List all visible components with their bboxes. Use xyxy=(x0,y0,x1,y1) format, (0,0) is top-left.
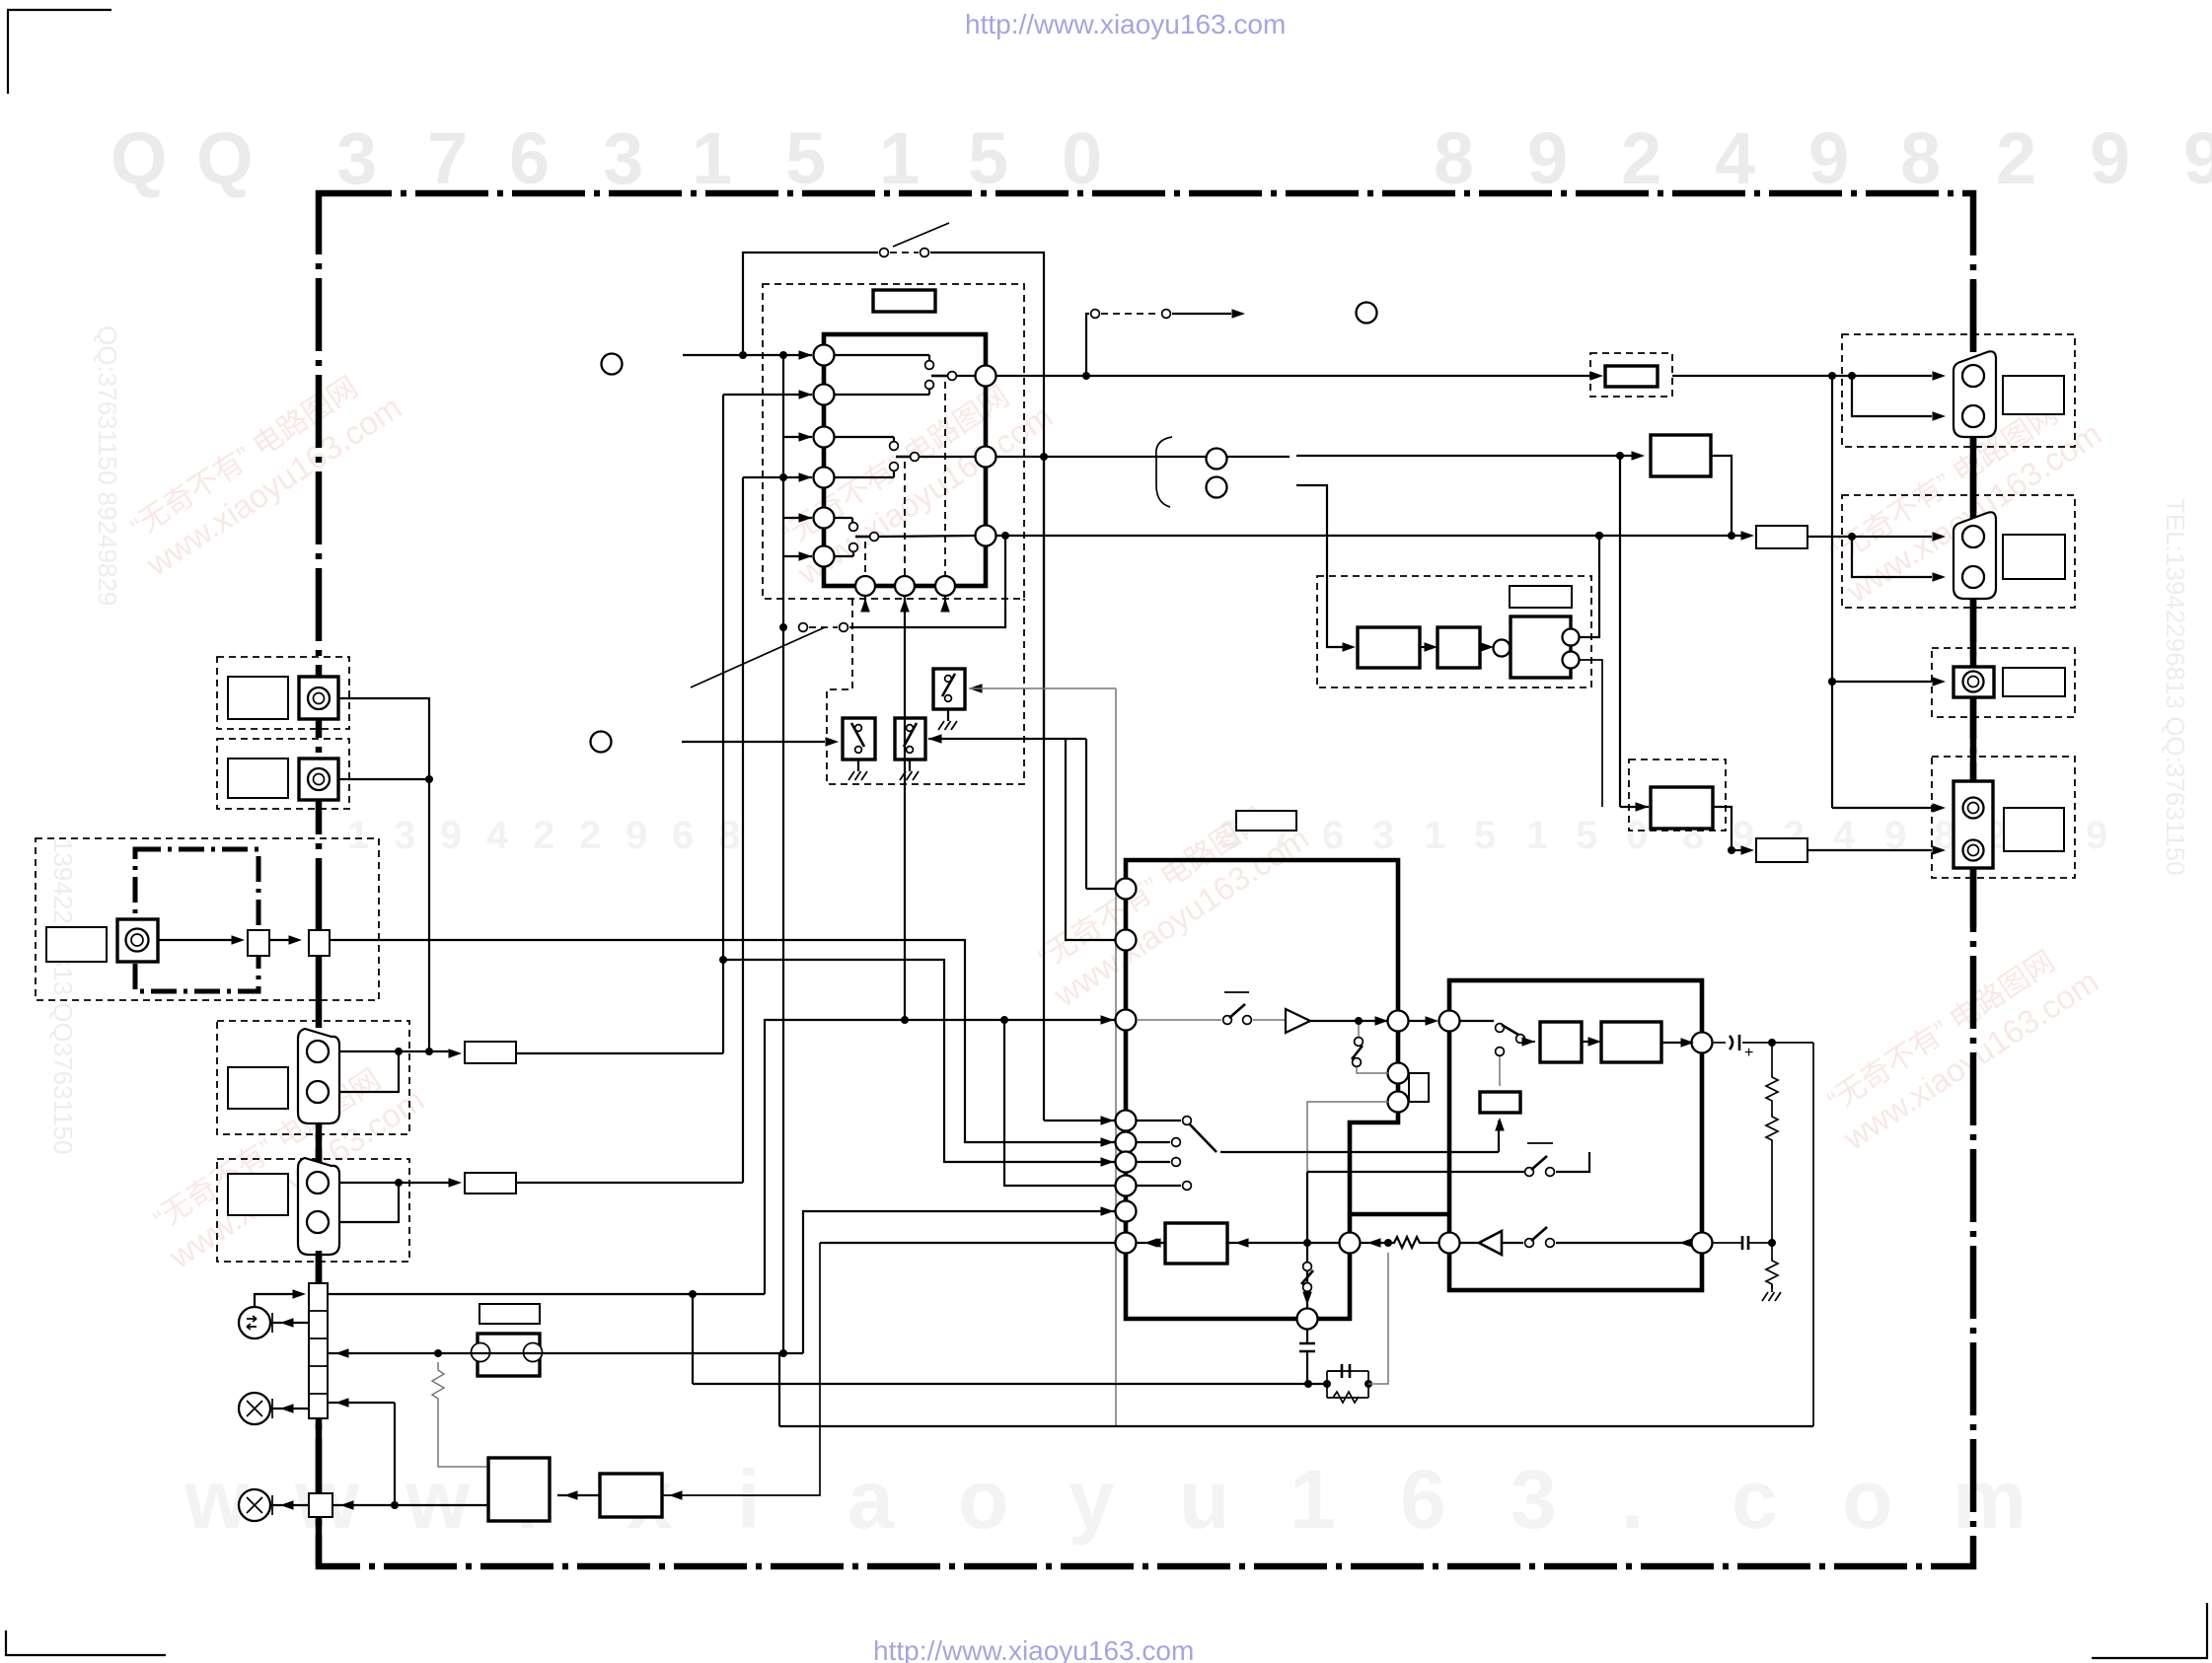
node junction xyxy=(1728,532,1735,540)
ground symbol SW-A xyxy=(848,771,867,780)
IC U1 dashed boundary xyxy=(763,284,1024,599)
dashed box D4 xyxy=(1629,759,1726,831)
label overline S4 xyxy=(1224,991,1249,993)
switch S8 contacts xyxy=(1496,1024,1505,1033)
arrowhead into B4 xyxy=(1632,451,1646,461)
U1 internal contact xyxy=(834,517,852,519)
switch S9 blade xyxy=(1531,1156,1547,1170)
SW-A ground stem xyxy=(857,759,859,771)
wire D3 B2-O xyxy=(1480,646,1487,648)
buffer amp A1 xyxy=(1286,1009,1310,1033)
SW-B ground stem xyxy=(909,759,911,771)
wire y1188 internal xyxy=(1307,1171,1526,1173)
IC U2 left pin 2 xyxy=(1116,930,1137,951)
label box U3-L1 xyxy=(1480,1092,1520,1113)
wire riser x753 xyxy=(742,477,744,1183)
wire riser x1642 xyxy=(1619,456,1621,807)
wire R8 to CN4 xyxy=(1807,849,1932,851)
switch S3 dashed gap xyxy=(1101,313,1160,315)
resistor R3 zigzag xyxy=(1388,1237,1426,1248)
wire node down chain xyxy=(1771,1043,1773,1073)
connector CN-B jack xyxy=(308,768,330,790)
arrowhead into CN4 pin2 xyxy=(1933,845,1947,855)
ground symbol chain xyxy=(1762,1292,1781,1301)
node junction y543 xyxy=(1595,532,1603,540)
IC U3 left pin 1 xyxy=(1439,1011,1460,1032)
connector CN1 pin2 xyxy=(1962,405,1984,427)
wire FL2 to riser x753 xyxy=(516,1182,743,1184)
IC U1 body xyxy=(824,334,986,586)
resistor R2 in RC xyxy=(1333,1392,1359,1403)
arrowhead into U1 pin xyxy=(799,472,813,482)
wire CN-D pin1 out seg xyxy=(339,1182,454,1184)
wire B3 input xyxy=(1227,1242,1339,1244)
IC U1 bottom pin 11 xyxy=(895,576,915,596)
strip divider xyxy=(309,1338,328,1339)
connector CN-B square xyxy=(299,759,338,800)
bus square xyxy=(309,930,330,956)
wire M2 to strip xyxy=(271,1408,309,1410)
wire stub y462 xyxy=(1296,455,1638,457)
arrowhead into U2 lower right pin xyxy=(1367,1238,1381,1248)
U1 internal contact xyxy=(834,394,929,396)
watermark pink diagonal left-top xyxy=(118,357,407,583)
wire U2a to U3 pin xyxy=(1408,1020,1428,1022)
connector CN4 label box xyxy=(2004,808,2064,851)
U1 internal dashed net xyxy=(864,542,866,576)
wire S8 to label box light xyxy=(1499,1056,1501,1086)
wire U2 bottom pin lead xyxy=(1306,1292,1308,1302)
loopback box U2bc xyxy=(1409,1073,1429,1102)
arrowhead into SW-B xyxy=(928,734,942,744)
wire stub y492 xyxy=(1296,485,1350,647)
wire C3 to node xyxy=(1742,1042,1813,1044)
U1 internal dashed net xyxy=(944,382,946,576)
wire RC top bridge xyxy=(1327,1370,1340,1372)
connector CN-C label box xyxy=(228,1067,288,1109)
wire riser x790 xyxy=(778,1353,780,1426)
switch S1 contact xyxy=(880,249,889,257)
IC U2 left pin 8 xyxy=(1116,1201,1137,1222)
block D3-B2 xyxy=(1438,627,1480,668)
SW-C contacts and blade xyxy=(945,676,952,683)
connector CN4 jack1 xyxy=(1963,798,1984,819)
node junction xyxy=(719,956,727,964)
D3 output circle top xyxy=(1563,629,1580,646)
arrowhead into CN4 pin1 xyxy=(1933,803,1947,813)
connector CN4 square xyxy=(1954,781,1993,868)
wire R1 to block B1 xyxy=(438,1407,488,1467)
arrowhead into filter FL2 xyxy=(449,1178,463,1188)
arrowhead into B2 xyxy=(669,1490,683,1500)
connector CN-C pin 2 xyxy=(307,1081,329,1103)
resistor R5 zigzag xyxy=(1766,1113,1778,1144)
resonator X1 body xyxy=(478,1334,540,1376)
arrowhead into U2 pin xyxy=(1101,1116,1115,1125)
arrowhead into U1 bottom pin 12 xyxy=(940,599,950,613)
wire U2 pin6 stub xyxy=(1137,1161,1170,1163)
switch S2 blade diagonal xyxy=(691,627,825,687)
arrowhead into U3 right pin2 xyxy=(1679,1238,1693,1248)
wire U2 pin5 stub xyxy=(1137,1141,1170,1143)
wire U1 input bus vertical xyxy=(782,355,784,627)
connector CN1 dashed box xyxy=(1842,334,2075,447)
wire pin c loop xyxy=(1408,1101,1409,1103)
connector CN-C pin 1 xyxy=(307,1041,329,1062)
arrowhead into strip 3 xyxy=(335,1348,349,1358)
switch S1 dashed gap xyxy=(890,252,919,253)
arrowhead into B5 xyxy=(1636,802,1650,812)
wire C1 down xyxy=(1306,1351,1308,1384)
wire strip top right xyxy=(328,1293,765,1295)
svg-text:139422968: 139422968 xyxy=(347,814,740,857)
wire U3B2 out xyxy=(1661,1042,1687,1044)
IC U1 right pin 9 xyxy=(976,526,996,546)
drum label box xyxy=(46,927,107,962)
capacitor C4 xyxy=(1742,1236,1748,1250)
connector CN-B dashed box xyxy=(217,739,349,809)
arrowhead into D3-O xyxy=(1481,642,1495,652)
arrowhead into B3 xyxy=(1235,1238,1249,1248)
IC U1 pin 1 xyxy=(814,345,835,366)
node junction xyxy=(425,775,433,783)
wire D3 B1-B2 xyxy=(1420,646,1431,648)
crop mark bottom-left xyxy=(6,1630,166,1655)
wire A1 out xyxy=(1310,1020,1388,1022)
block B2 xyxy=(600,1474,662,1517)
wire into SW-A xyxy=(682,741,825,743)
connector CN3 dashed box xyxy=(1932,648,2075,717)
arrowhead into M3 xyxy=(280,1500,294,1510)
node junction xyxy=(1728,846,1735,854)
wire branch to riser xyxy=(723,960,1116,1162)
wire riser x775 net xyxy=(765,1020,1116,1294)
connector CN-D label box xyxy=(228,1174,288,1215)
bus left solid segment b xyxy=(316,1251,323,1283)
wire riser x1080 xyxy=(1066,739,1116,940)
wire CN3 input xyxy=(1832,681,1932,683)
wire B5 out xyxy=(1713,807,1732,850)
IC U2 left pin 4 xyxy=(1116,1111,1137,1131)
wire riser x1101 xyxy=(1085,739,1087,889)
IC U2 right pin a xyxy=(1388,1011,1409,1032)
arrowhead into F2 xyxy=(1590,371,1604,381)
switch S2 contact xyxy=(840,623,848,632)
drum dashed box xyxy=(36,838,379,1000)
wire U1 pin2 input from riser xyxy=(723,394,812,396)
drum head jack xyxy=(126,929,149,952)
connector CN-D pin 2 xyxy=(307,1211,329,1233)
IC U3 left pin 2 xyxy=(1439,1233,1460,1254)
wire U2 bottom out xyxy=(1306,1329,1308,1343)
wire R3 to U3 xyxy=(1426,1242,1438,1244)
resistor R4 zigzag xyxy=(1766,1073,1778,1105)
block B4 xyxy=(1651,435,1711,476)
wire pin c internal light xyxy=(1307,1102,1388,1172)
connector CN1 pin1 xyxy=(1962,365,1984,387)
connector CN4 dashed box xyxy=(1932,757,2075,878)
switch box SW-B xyxy=(895,718,925,759)
wire U1 pin6 input xyxy=(783,555,812,557)
arrowhead into CN1 pin2 xyxy=(1933,411,1947,421)
wire CN2 branch xyxy=(1852,537,1932,577)
connector CN-A dashed box xyxy=(217,657,349,729)
arrowhead into U1 bottom pin 10 xyxy=(860,599,870,613)
block U3-B1 xyxy=(1540,1022,1582,1062)
wire S2 to riser xyxy=(849,536,1005,627)
arrowhead into U1 pin xyxy=(799,390,813,399)
label overline S9 xyxy=(1527,1142,1553,1144)
D3 output circle bottom xyxy=(1563,652,1580,669)
connector CN2 pin2 xyxy=(1962,566,1984,588)
wire riser x1621 xyxy=(1579,536,1599,637)
label leader line S1 xyxy=(893,223,949,247)
switch S7 blade xyxy=(1301,1270,1313,1284)
U1 internal dashed net xyxy=(904,462,906,576)
connector CN-D body xyxy=(298,1158,339,1255)
connector CN-A square xyxy=(299,677,338,719)
arrowhead into strip xyxy=(293,1289,307,1299)
switch S8 blade xyxy=(1502,1025,1518,1035)
wire top loop right xyxy=(930,253,1044,739)
arrowhead into U1 pin xyxy=(799,551,813,561)
block U2-B3 xyxy=(1165,1223,1227,1264)
drum edge square xyxy=(248,930,269,956)
node junction xyxy=(1323,1380,1331,1388)
bus left solid segment 2 xyxy=(316,1418,323,1493)
arrowhead into D3-B2 xyxy=(1425,642,1438,652)
wire into strip from riser xyxy=(328,1402,395,1404)
wire B2 to B1 xyxy=(557,1494,600,1496)
wire y1168 to L1 xyxy=(1498,1121,1500,1152)
arrowhead into filter FL1 xyxy=(449,1048,463,1058)
ground symbol SW-C xyxy=(938,721,957,730)
switch S5 contacts xyxy=(1355,1038,1364,1047)
arrowhead into U1 pin xyxy=(799,432,813,442)
arrowhead drum xyxy=(232,935,246,945)
arrowhead into U2 bottom pin xyxy=(1302,1292,1312,1306)
wire B5 input xyxy=(1620,806,1649,808)
IC U1 lower dashed boundary xyxy=(827,599,1024,784)
wire riser x794 xyxy=(782,627,784,1353)
switch S6 free contacts xyxy=(1172,1138,1181,1147)
U1 internal switch blade xyxy=(855,536,869,539)
connector CN3 jack xyxy=(1963,672,1984,692)
RC network loop xyxy=(1327,1371,1368,1398)
wire CN-C pin1 out xyxy=(339,1050,454,1052)
IC U2 left pin 7 xyxy=(1116,1176,1137,1196)
wire top loop left xyxy=(743,253,878,355)
U1 internal contact xyxy=(834,354,929,356)
wire chain to cap node xyxy=(1771,1144,1773,1257)
arrowhead into U2 pin xyxy=(1101,1206,1115,1216)
IC U1 pin 2 xyxy=(814,385,835,405)
arrowhead into U2 pin xyxy=(1101,1157,1115,1167)
IC U2 bottom pin xyxy=(1297,1309,1318,1330)
reference circle D xyxy=(1207,477,1227,498)
wire x1325 internal xyxy=(1306,1172,1308,1309)
U1 internal contact xyxy=(834,436,894,438)
U1 internal switch blade xyxy=(931,375,947,378)
IC U1 right pin 7 xyxy=(976,366,996,387)
filter F2 box xyxy=(1605,366,1658,387)
wire U3B1 to B2 xyxy=(1582,1041,1594,1043)
strip divider xyxy=(309,1310,328,1312)
wire riser x1059 to U2 pin4 xyxy=(1044,1120,1116,1121)
arrowhead into U3-L1 xyxy=(1495,1118,1505,1131)
connector CN1 label box xyxy=(2003,376,2064,414)
label box D3-L xyxy=(1510,586,1572,608)
wire riser x733 xyxy=(722,395,724,1053)
watermark pink diagonal right-top xyxy=(1818,384,2107,610)
IC U2 right pin c xyxy=(1388,1092,1409,1113)
switch S5 dashed xyxy=(1358,1025,1360,1037)
switch S2 contact xyxy=(799,623,808,632)
arrowhead into strip 2 xyxy=(335,1398,349,1408)
wire U1 pin9 output xyxy=(995,535,1589,537)
IC U2 left pin 5 xyxy=(1116,1132,1137,1153)
arrowhead into U1 bottom pin 11 xyxy=(900,599,910,613)
arrowhead into CN1 pin1 xyxy=(1933,371,1947,381)
U1 internal switch blade xyxy=(896,456,910,459)
wire S6 out y1168 xyxy=(1220,1151,1499,1153)
IC U1 label box xyxy=(873,290,935,312)
arrowhead into U3 left pin xyxy=(1426,1016,1439,1026)
wire U2 to R3 chain xyxy=(1361,1242,1388,1244)
wire X1 line xyxy=(328,1352,803,1354)
connector CN-B label box xyxy=(228,759,288,798)
connector CN3 square xyxy=(1954,667,1994,697)
connector CN-A jack xyxy=(308,687,330,709)
U1 bottom pin leads xyxy=(864,596,866,605)
arrowhead into CN3 xyxy=(1933,677,1947,687)
node junction xyxy=(1364,1380,1372,1388)
wire U2 pin3 internal light xyxy=(1137,1019,1221,1021)
block D3-B1 xyxy=(1358,627,1420,668)
block D3-B3 xyxy=(1511,616,1571,678)
svg-text:892498299: 892498299 xyxy=(1434,117,2212,199)
dashed box D3 xyxy=(1317,576,1591,687)
ground symbol SW-B xyxy=(900,771,919,780)
wire y543 to R7 xyxy=(1589,535,1748,537)
wire into SW-C light xyxy=(969,687,1116,689)
reference bracket xyxy=(1156,437,1172,507)
switch S6 blade xyxy=(1190,1124,1217,1152)
switch box SW-A xyxy=(843,718,875,759)
svg-text:QQ:37631150 89249829: QQ:37631150 89249829 xyxy=(93,325,122,606)
arrowhead into U2 lower-left pin xyxy=(1147,1238,1161,1248)
wire A2 in xyxy=(1502,1242,1523,1244)
wire riser x1131 light xyxy=(1115,688,1117,1426)
arrowhead into CN-F xyxy=(340,1500,354,1510)
wire drum out xyxy=(158,939,237,941)
wire U1 pin3 input xyxy=(783,436,812,438)
buffer amp A2 xyxy=(1479,1231,1502,1255)
connector CN4 jack2 xyxy=(1963,840,1984,861)
IC U1 bottom pin 12 xyxy=(935,576,955,596)
wire M1 to strip xyxy=(271,1322,309,1324)
SW-A contacts and blade xyxy=(855,725,862,732)
wire drum link xyxy=(269,939,294,941)
bus right solid segment 4 xyxy=(1970,697,1977,781)
wire stub to S3 xyxy=(1086,314,1089,376)
connector CN1 body xyxy=(1954,351,1996,437)
strip divider xyxy=(309,1393,328,1395)
wire U1 pin4 input xyxy=(743,476,812,478)
watermark pink diagonal center-top xyxy=(770,366,1059,592)
motor M3 xyxy=(239,1489,270,1521)
switch S6 contact xyxy=(1183,1117,1192,1125)
filter FL1 box xyxy=(465,1042,516,1063)
arrowhead into SW-C xyxy=(969,684,983,693)
wire U2 pin4 internal xyxy=(1137,1120,1181,1121)
IC U1 pin 5 xyxy=(814,508,835,529)
connector CN-D pin 1 xyxy=(307,1172,329,1193)
connector CN-D dashed box xyxy=(217,1159,409,1262)
wire R7 to CN2 xyxy=(1807,536,1932,538)
label box L2 xyxy=(1236,811,1296,831)
IC U2 left pin 9 xyxy=(1116,1233,1137,1254)
arrowhead into U3 right pin1 xyxy=(1681,1038,1695,1048)
resistor box R7 xyxy=(1756,526,1807,548)
wire CN-F to block xyxy=(332,1504,488,1506)
strip connector CN-E xyxy=(309,1283,328,1418)
IC U3 body xyxy=(1449,980,1702,1290)
wire riser x831 to B2 xyxy=(662,1243,820,1495)
node junction xyxy=(779,623,787,631)
wire B3 to pin xyxy=(1137,1242,1165,1244)
wire S5 to pin b light xyxy=(1357,1067,1388,1073)
switch S10 blade xyxy=(1531,1227,1547,1241)
node junction xyxy=(1000,1016,1008,1024)
wire conn1 branch xyxy=(1852,376,1932,416)
switch S8 lower contact xyxy=(1496,1048,1505,1056)
arrowhead into R8box xyxy=(1741,845,1755,855)
IC U2 left pin 1 xyxy=(1116,879,1137,900)
IC U3 right pin 1 xyxy=(1692,1033,1713,1053)
bus left solid segment xyxy=(316,1123,323,1162)
connector CN2 body xyxy=(1954,512,1996,599)
wire net y1403 xyxy=(693,1383,1327,1385)
filter dashed box D2 xyxy=(1590,353,1672,397)
wire U2 pin9 out left xyxy=(820,1242,1116,1244)
frame border dash-dot xyxy=(319,193,1973,1566)
svg-text:+: + xyxy=(1744,1045,1753,1061)
block B5 xyxy=(1651,787,1713,829)
arrowhead into U1 pin xyxy=(799,350,813,360)
switch S5 blade xyxy=(1352,1046,1363,1059)
arrowhead into M1 xyxy=(280,1318,294,1328)
wire B4 out xyxy=(1711,456,1732,536)
capacitor C3 polarized xyxy=(1730,1035,1739,1050)
wire S3 arrow stub xyxy=(1172,313,1231,315)
motor M2 xyxy=(239,1393,270,1424)
switch S1 contact xyxy=(921,249,929,257)
block B1 xyxy=(488,1458,550,1521)
block U3-B2 xyxy=(1601,1022,1661,1062)
bus left solid segment 3 xyxy=(316,1517,323,1566)
arrowhead into U3-B2 xyxy=(1588,1037,1602,1047)
switch S3 contact xyxy=(1162,310,1171,319)
switch S7 contacts xyxy=(1303,1263,1312,1271)
SW-B contacts and blade xyxy=(907,725,914,732)
wire U3 bottom chain xyxy=(1460,1242,1479,1244)
drum thick dash-dot box xyxy=(135,849,258,991)
wire U2 pin7 internal xyxy=(1137,1185,1181,1187)
SW-C ground stem xyxy=(947,709,949,721)
wire U1 pin5 input xyxy=(783,517,812,519)
switch S4 contacts xyxy=(1223,1016,1232,1025)
